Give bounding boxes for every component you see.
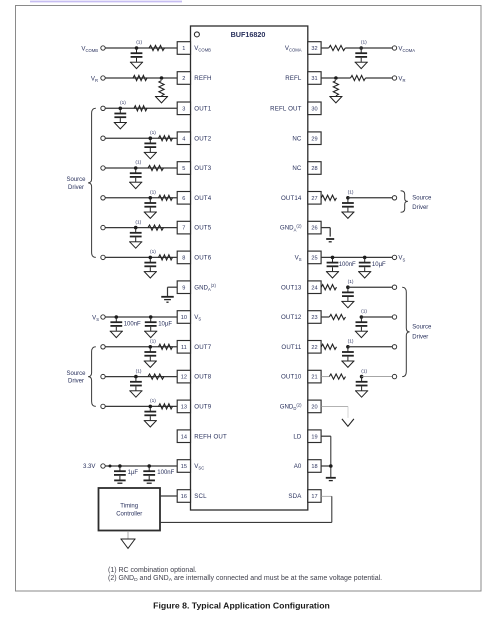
svg-text:21: 21: [311, 375, 317, 381]
node OUT3 junction: [134, 166, 138, 170]
terminal OUT5 (source driver): [101, 225, 105, 229]
ground REFL pulldown (triangle): [329, 96, 342, 98]
terminal OUT14: [392, 196, 396, 200]
svg-text:REFL OUT: REFL OUT: [270, 105, 301, 112]
terminal OUT13: [392, 285, 396, 289]
terminal VR left: [101, 76, 105, 80]
ground row2 pulldown (triangle): [155, 96, 168, 98]
wire pin to OUT10 resistor: [321, 376, 329, 378]
svg-text:8: 8: [182, 256, 185, 262]
capacitor OUT4 optional C: [149, 198, 151, 203]
resistor OUT13 series R: [321, 285, 336, 290]
ground LD-A0 (earth): [326, 477, 336, 479]
capacitor OUT14 optional C: [347, 198, 349, 203]
resistor row2 series R: [133, 75, 147, 80]
pin 26 GNDA: [308, 221, 321, 234]
pin 7 OUT5: [177, 221, 190, 234]
capacitor OUT11 optional C: [347, 347, 349, 352]
svg-text:32: 32: [311, 46, 317, 52]
node OUT1 junction: [119, 107, 123, 111]
wire OUT9 row: [105, 405, 177, 407]
pin 28 NC: [308, 162, 321, 175]
ground OUT10 cap (triangle): [355, 390, 368, 392]
svg-text:Controller: Controller: [116, 512, 142, 518]
resistor REFL pulldown R: [333, 81, 338, 96]
capacitor OUT2 optional C: [149, 138, 151, 143]
brace source driver OUT1-OUT6: [88, 108, 96, 257]
svg-text:25: 25: [311, 256, 317, 262]
svg-text:6: 6: [182, 196, 185, 202]
svg-text:(1): (1): [150, 130, 156, 136]
capacitor OUT5 optional C: [135, 228, 137, 233]
svg-text:(1): (1): [150, 249, 156, 255]
svg-text:OUT8: OUT8: [194, 374, 211, 381]
pin 21 OUT10: [308, 370, 321, 383]
capacitor OUT7 optional C: [149, 347, 151, 352]
node OUT12 junction: [360, 315, 364, 319]
brace source driver OUT13-OUT10: [402, 287, 409, 376]
svg-text:24: 24: [311, 285, 317, 291]
capacitor 10uF right: [364, 257, 366, 262]
terminal OUT10: [392, 374, 396, 378]
terminal OUT4 (source driver): [101, 196, 105, 200]
svg-text:(1): (1): [120, 100, 126, 106]
terminal OUT8 (source driver): [101, 374, 105, 378]
svg-text:9: 9: [182, 285, 185, 291]
svg-text:OUT12: OUT12: [281, 314, 302, 321]
wire timing controller to ground: [127, 531, 129, 539]
svg-text:OUT10: OUT10: [281, 374, 302, 381]
svg-text:(1): (1): [348, 190, 354, 196]
svg-text:11: 11: [181, 345, 187, 351]
wire SDA vertical: [331, 496, 333, 522]
resistor OUT14 series R: [321, 195, 336, 200]
svg-text:7: 7: [182, 226, 185, 232]
pin 22 OUT11: [308, 341, 321, 354]
wire OUT7 row: [105, 346, 177, 348]
svg-text:(1): (1): [135, 219, 141, 225]
capacitor row1 optional C: [136, 48, 138, 53]
svg-text:Driver: Driver: [412, 205, 428, 211]
wire OUT13 junction to terminal: [348, 286, 392, 288]
wire pin20 GNDD: [321, 405, 348, 407]
resistor OUT6 series R: [159, 255, 173, 260]
svg-text:10µF: 10µF: [372, 262, 386, 268]
resistor VCOMA series R: [329, 45, 346, 50]
capacitor OUT1 optional C: [119, 108, 121, 113]
pin 10 VS: [177, 311, 190, 324]
svg-text:(1) RC combination optional.: (1) RC combination optional.: [108, 567, 197, 574]
svg-text:OUT11: OUT11: [281, 344, 302, 351]
svg-text:OUT1: OUT1: [194, 105, 211, 112]
pin 6 OUT4: [177, 192, 190, 205]
svg-text:100nF: 100nF: [157, 470, 174, 476]
svg-text:SCL: SCL: [194, 493, 207, 500]
svg-text:31: 31: [311, 76, 317, 82]
node OUT6 junction: [149, 256, 153, 260]
pin 12 OUT8: [177, 370, 190, 383]
node OUT2 junction: [149, 136, 153, 140]
svg-text:(1): (1): [361, 368, 367, 374]
ground pin9 GNDA (earth): [161, 296, 174, 298]
svg-text:Driver: Driver: [68, 185, 84, 191]
ground row1 cap (triangle): [130, 61, 143, 63]
terminal OUT2 (source driver): [101, 136, 105, 140]
svg-text:Source: Source: [66, 177, 86, 183]
capacitor 100nF digital: [148, 466, 150, 471]
resistor OUT10 series R: [329, 374, 345, 379]
svg-text:NC: NC: [292, 165, 302, 172]
svg-text:REFL: REFL: [285, 75, 302, 82]
svg-text:3.3V: 3.3V: [83, 463, 96, 470]
svg-text:13: 13: [181, 405, 187, 411]
ground OUT2 cap (triangle): [144, 151, 157, 153]
svg-text:Figure 8. Typical Application: Figure 8. Typical Application Configurat…: [153, 600, 330, 610]
ground OUT7 cap (triangle): [144, 360, 157, 362]
svg-text:LD: LD: [293, 433, 302, 440]
wire pin26 GNDA to ground: [321, 227, 330, 229]
wire 3.3V to pin 15: [105, 465, 177, 467]
node REFL junction: [334, 76, 338, 80]
svg-text:5: 5: [182, 166, 185, 172]
terminal 3.3V: [101, 464, 105, 468]
pin 13 OUT9: [177, 400, 190, 413]
svg-text:19: 19: [311, 434, 317, 440]
pin 18 A0: [308, 460, 321, 473]
node OUT5 junction: [134, 226, 138, 230]
svg-text:1: 1: [182, 46, 185, 52]
ground pin20 GNDD (open V): [342, 419, 354, 426]
capacitor OUT9 optional C: [149, 406, 151, 411]
pin 20 GNDD: [308, 400, 321, 413]
svg-text:27: 27: [311, 196, 317, 202]
svg-text:BUF16820: BUF16820: [231, 30, 266, 39]
ground OUT1 cap (triangle): [114, 122, 127, 124]
terminal OUT1 (source driver): [101, 106, 105, 110]
svg-text:(1): (1): [361, 40, 367, 46]
pin 32 VCOMA: [308, 42, 321, 55]
svg-text:(1): (1): [136, 368, 142, 374]
pin 15 VSC: [177, 460, 190, 473]
pin 30 REFL OUT: [308, 102, 321, 115]
wire REFL to terminal: [366, 77, 393, 79]
resistor row1 series R: [149, 45, 165, 50]
svg-text:100nF: 100nF: [124, 322, 141, 328]
block timing controller: [99, 488, 161, 531]
pin 24 OUT13: [308, 281, 321, 294]
terminal VR right: [392, 76, 396, 80]
node row2 junction: [160, 76, 164, 80]
node VS right junction 1: [331, 256, 335, 260]
pin 4 OUT2: [177, 132, 190, 145]
node LD-A0 junction: [329, 464, 333, 468]
svg-text:OUT14: OUT14: [281, 195, 302, 202]
svg-text:OUT2: OUT2: [194, 135, 211, 142]
terminal OUT12: [392, 315, 396, 319]
svg-text:2: 2: [182, 76, 185, 82]
svg-text:18: 18: [311, 464, 317, 470]
node 1uF junction: [118, 464, 122, 468]
ground 100nF cap (earth): [143, 479, 155, 481]
terminal OUT3 (source driver): [101, 166, 105, 170]
svg-text:OUT3: OUT3: [194, 165, 211, 172]
node OUT13 junction: [346, 285, 350, 289]
svg-text:Source: Source: [412, 196, 432, 202]
pin 3 OUT1: [177, 102, 190, 115]
wire pin32 to resistor: [321, 47, 329, 49]
brace source driver OUT14: [401, 191, 408, 213]
capacitor OUT3 optional C: [135, 168, 137, 173]
capacitor OUT8 optional C: [135, 377, 137, 382]
capacitor 10uF left: [150, 317, 152, 322]
ground OUT11 cap (triangle): [341, 360, 354, 362]
wire OUT6 row: [105, 256, 177, 258]
pin 29 NC: [308, 132, 321, 145]
node 100nF junction: [147, 464, 151, 468]
svg-text:26: 26: [311, 226, 317, 232]
resistor OUT8 series R: [148, 374, 164, 379]
wire SCL: [160, 495, 177, 497]
svg-text:(1): (1): [348, 339, 354, 345]
resistor OUT3 series R: [148, 165, 164, 170]
pin 14 REFH OUT: [177, 430, 190, 443]
IC pin-1 indicator circle: [194, 32, 199, 37]
svg-text:1µF: 1µF: [128, 470, 139, 476]
node OUT14 junction: [346, 196, 350, 200]
svg-text:Timing: Timing: [120, 504, 138, 510]
wire OUT3 row: [105, 167, 177, 169]
resistor REFL series R: [351, 75, 366, 80]
wire SDA horizontal: [160, 521, 331, 523]
pin 16 SCL: [177, 490, 190, 503]
svg-text:OUT13: OUT13: [281, 284, 302, 291]
brace source driver OUT7-OUT9: [88, 347, 96, 407]
pin 19 LD: [308, 430, 321, 443]
ground 1uF cap (earth): [114, 479, 126, 481]
wire OUT12 junction to terminal: [361, 316, 392, 318]
svg-text:Driver: Driver: [68, 379, 84, 385]
wire OUT8 row: [105, 376, 177, 378]
terminal OUT11: [392, 345, 396, 349]
node OUT11 junction: [346, 345, 350, 349]
ground 10uF right cap (triangle): [358, 271, 371, 273]
svg-text:(1): (1): [361, 309, 367, 315]
wire LD to A0 tie: [321, 435, 331, 437]
svg-text:(1): (1): [150, 398, 156, 404]
capacitor OUT13 optional C: [347, 287, 349, 292]
ground OUT3 cap (triangle): [129, 181, 142, 183]
ground 10uF left cap (triangle): [144, 330, 157, 332]
svg-text:A0: A0: [294, 463, 302, 470]
wire VCOMA junction to terminal: [345, 47, 392, 49]
ground OUT14 cap (triangle): [341, 211, 354, 213]
capacitor VCOMA optional C: [360, 48, 362, 53]
node 3.3V junction 0: [109, 465, 112, 468]
node VS junction 2: [149, 315, 153, 319]
svg-text:14: 14: [181, 434, 187, 440]
wire pin31 REFL: [321, 77, 350, 79]
node VCOMA junction: [359, 46, 363, 50]
resistor OUT4 series R: [159, 195, 173, 200]
node VS junction 1: [115, 315, 119, 319]
svg-text:(1): (1): [136, 40, 142, 46]
node row1 junction: [135, 46, 139, 50]
svg-text:REFH: REFH: [194, 75, 211, 82]
svg-text:23: 23: [311, 315, 317, 321]
node OUT10 junction: [360, 375, 364, 379]
ground 100nF right cap (triangle): [326, 271, 339, 273]
pin 8 OUT6: [177, 251, 190, 264]
svg-text:20: 20: [311, 405, 317, 411]
node VS right junction 2: [363, 256, 367, 260]
node OUT8 junction: [134, 375, 138, 379]
wire pin to OUT11 resistor: [320, 346, 322, 348]
svg-text:Driver: Driver: [412, 335, 428, 341]
svg-text:4: 4: [182, 136, 185, 142]
svg-text:OUT9: OUT9: [194, 404, 211, 411]
svg-text:Source: Source: [412, 325, 432, 331]
svg-text:17: 17: [311, 494, 317, 500]
svg-text:NC: NC: [292, 135, 302, 142]
terminal VCOMA: [392, 46, 396, 50]
ground OUT8 cap (triangle): [129, 390, 142, 392]
terminal VS left: [101, 315, 105, 319]
pin 1 VCOMB: [177, 42, 190, 55]
wire SDA from pin17: [321, 495, 332, 497]
svg-text:15: 15: [181, 464, 187, 470]
svg-text:10: 10: [181, 315, 187, 321]
pin 23 OUT12: [308, 311, 321, 324]
svg-text:(1): (1): [135, 160, 141, 166]
terminal OUT6 (source driver): [101, 255, 105, 259]
capacitor OUT6 optional C: [149, 257, 151, 262]
resistor OUT9 series R: [159, 404, 173, 409]
ground OUT12 cap (triangle): [355, 330, 368, 332]
resistor OUT7 series R: [159, 344, 173, 349]
wire pin to OUT13 resistor: [320, 286, 322, 288]
wire pin to OUT14 resistor: [320, 197, 322, 199]
svg-text:10µF: 10µF: [158, 322, 172, 328]
pin 11 OUT7: [177, 341, 190, 354]
pin 5 OUT3: [177, 162, 190, 175]
wire OUT5 row: [105, 227, 177, 229]
wire OUT11 junction to terminal: [348, 346, 392, 348]
wire pin9 GNDA to ground: [168, 286, 178, 288]
wire OUT2 row: [105, 137, 177, 139]
resistor OUT12 series R: [329, 314, 345, 319]
resistor OUT2 series R: [159, 136, 173, 141]
pin 25 VS: [308, 251, 321, 264]
wire VR to pin 2: [105, 77, 177, 79]
pin 17 SDA: [308, 490, 321, 503]
pin 2 REFH: [177, 72, 190, 85]
terminal OUT7 (source driver): [101, 345, 105, 349]
svg-text:OUT5: OUT5: [194, 225, 211, 232]
resistor OUT1 series R: [134, 106, 147, 111]
IC U1 BUF16820 body: [191, 26, 308, 510]
ground 100nF left cap (triangle): [110, 330, 123, 332]
header rule fragment: [30, 1, 182, 3]
resistor row2 pulldown R: [159, 81, 164, 96]
capacitor 100nF left: [115, 317, 117, 322]
resistor OUT11 series R: [321, 344, 336, 349]
svg-text:OUT4: OUT4: [194, 195, 211, 202]
wire pin25 VS: [321, 256, 392, 258]
svg-text:29: 29: [311, 136, 317, 142]
wire OUT14 junction to terminal: [348, 197, 392, 199]
terminal OUT9 (source driver): [101, 404, 105, 408]
svg-text:OUT7: OUT7: [194, 344, 211, 351]
terminal VS right: [392, 255, 396, 259]
capacitor OUT12 optional C: [360, 317, 362, 322]
node OUT7 junction: [149, 345, 153, 349]
wire A0: [321, 465, 331, 467]
svg-text:30: 30: [311, 106, 317, 112]
ground OUT4 cap (triangle): [144, 211, 157, 213]
svg-text:(1): (1): [150, 339, 156, 345]
terminal VCOMB: [101, 46, 105, 50]
capacitor 100nF right: [332, 257, 334, 262]
ground OUT9 cap (triangle): [144, 420, 157, 422]
wire OUT10 junction to terminal: [362, 376, 393, 378]
wire OUT1 row: [105, 107, 177, 109]
node OUT9 junction: [149, 405, 153, 409]
ground VCOMA cap (triangle): [355, 61, 368, 63]
wire VCOMB to pin 1: [105, 47, 177, 49]
svg-text:100nF: 100nF: [339, 262, 356, 268]
svg-text:12: 12: [181, 375, 187, 381]
svg-text:3: 3: [182, 106, 185, 112]
resistor OUT5 series R: [148, 225, 164, 230]
capacitor OUT10 optional C: [361, 377, 363, 382]
svg-text:(1): (1): [348, 279, 354, 285]
svg-text:REFH OUT: REFH OUT: [194, 433, 227, 440]
svg-text:28: 28: [311, 166, 317, 172]
svg-text:22: 22: [311, 345, 317, 351]
pin 9 GNDA: [177, 281, 190, 294]
wire pin to OUT12 resistor: [321, 316, 329, 318]
svg-text:OUT6: OUT6: [194, 255, 211, 262]
wire VS to pin 10: [105, 316, 177, 318]
pin 27 OUT14: [308, 192, 321, 205]
svg-text:SDA: SDA: [288, 493, 302, 500]
node OUT4 junction: [149, 196, 153, 200]
ground timing controller (triangle): [120, 538, 135, 540]
svg-text:(1): (1): [150, 190, 156, 196]
svg-text:Source: Source: [66, 371, 86, 377]
ground OUT5 cap (triangle): [129, 241, 142, 243]
svg-text:16: 16: [181, 494, 187, 500]
ground OUT6 cap (triangle): [144, 271, 157, 273]
wire OUT4 row: [105, 197, 177, 199]
capacitor 1uF: [119, 466, 121, 471]
pin 31 REFL: [308, 72, 321, 85]
ground OUT13 cap (triangle): [341, 300, 354, 302]
ground pin26 GNDA (earth): [326, 238, 334, 240]
